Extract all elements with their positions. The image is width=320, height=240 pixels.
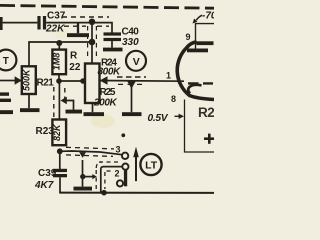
capacitor at left edge (cut) plate 1 [0, 92, 9, 95]
svg-text:1: 1 [166, 71, 171, 81]
pin 9 wire [196, 24, 215, 49]
shield dashes right of vertical wire [95, 26, 97, 59]
capacitor C40 [104, 32, 122, 41]
shield dashes right of R22-R23 wire [64, 88, 66, 102]
shielded wire to terminal 3 [60, 151, 122, 155]
switch blade bar [124, 169, 127, 186]
R25 bottom stem [92, 103, 94, 112]
R22 stem [58, 43, 60, 50]
node junction dot B [89, 39, 96, 46]
svg-text:9: 9 [186, 32, 191, 42]
wire to divider mid [59, 80, 83, 82]
resistor R22 body [52, 50, 66, 75]
wire y42 to R21 [29, 42, 92, 66]
test point T circle [0, 50, 16, 71]
grid dashes [188, 82, 213, 84]
svg-text:3: 3 [116, 145, 121, 155]
shield node ground stem [82, 177, 84, 187]
ground for wiper [66, 110, 83, 114]
ground bar [67, 33, 89, 37]
cable shield inner dashes horizontal [107, 170, 113, 172]
shield dashes left of vertical wire [87, 26, 89, 59]
wiper arrow to ground on R22-R23 [61, 97, 67, 104]
wire C37 to node [46, 22, 92, 24]
svg-text:V: V [133, 56, 140, 68]
down tap arrow on terminal3 wire [79, 152, 86, 158]
screening border (top dashed line) [0, 5, 214, 8]
svg-text:LT: LT [145, 159, 158, 171]
paper stain [91, 114, 115, 128]
shield dashes below top wire right part [97, 25, 109, 27]
cable shield outer dashes horizontal [99, 161, 119, 163]
ground (shield) stem [77, 23, 79, 34]
svg-text:C39: C39 [38, 168, 57, 179]
svg-text:1M8: 1M8 [52, 53, 62, 71]
divider wiper arrowhead [100, 76, 108, 84]
wiper arrowhead R21 [15, 76, 22, 84]
wiper ground wire [67, 101, 74, 110]
resistor R23 body [52, 120, 66, 146]
grid wire to tube [100, 80, 184, 83]
ground below C40 [103, 48, 123, 52]
bottom ground bus wire [59, 192, 214, 194]
switch contact circle top [122, 164, 128, 170]
terminal 2 cable L wire [101, 167, 123, 193]
shield dashes above top wire [62, 16, 109, 18]
ground below tap [122, 112, 142, 116]
shield dashes above grid wire [117, 76, 146, 78]
svg-text:22: 22 [69, 62, 81, 73]
potentiometer R21 body [22, 66, 36, 94]
paper background [0, 0, 214, 220]
R21 bottom stem [28, 94, 30, 108]
R23 stem top [58, 81, 60, 120]
shield dashes below grid wire [118, 83, 144, 85]
C39 bottom stem [59, 177, 61, 192]
svg-text:R21: R21 [37, 77, 55, 88]
svg-text:8: 8 [171, 94, 176, 104]
wiper wire from left [0, 80, 16, 82]
wire shield node to cable shield [83, 176, 93, 178]
0,5V arrow [175, 115, 181, 117]
node dot R23 bottom [57, 148, 63, 154]
node dot divider mid [80, 78, 86, 84]
stray junction dot [121, 133, 125, 137]
anode bar [187, 49, 208, 53]
svg-text:R: R [70, 51, 78, 62]
plus sign [204, 134, 214, 144]
wire to C37 [3, 22, 38, 24]
-70 arrow [196, 15, 202, 20]
switch contact circle bottom [117, 180, 123, 186]
signal direction arrow [135, 157, 137, 181]
shield dashes left of R22-R23 wire [53, 87, 55, 118]
shield dashes above terminal3 wire [66, 147, 114, 149]
svg-text:0.5V: 0.5V [148, 113, 169, 124]
C40 stem to ground [111, 41, 113, 48]
R22 bottom stem [58, 75, 60, 81]
C39 stem from node [59, 151, 61, 169]
ground at left edge [0, 110, 13, 114]
svg-text:R26: R26 [198, 105, 214, 120]
svg-text:2: 2 [115, 169, 120, 179]
vertical wire node to R24 [91, 22, 93, 64]
capacitor C37 [37, 16, 46, 30]
wire node to C40 corner [92, 23, 112, 33]
shield dashes below top wire [64, 25, 86, 27]
tube envelope arc [177, 42, 214, 100]
svg-text:T: T [3, 56, 9, 67]
svg-text:800K: 800K [98, 67, 121, 78]
tap stem down [82, 160, 84, 177]
svg-text:4K7: 4K7 [34, 180, 54, 191]
divider R24/R25 body [85, 64, 100, 104]
LT circle [140, 154, 161, 175]
capacitor at left edge plate 2 [0, 99, 11, 102]
svg-text:R25: R25 [100, 87, 116, 98]
ground bar shield node [74, 187, 93, 191]
node dot R22 bottom [56, 78, 62, 84]
svg-text:22K: 22K [45, 24, 65, 35]
capacitor (cut at left edge) plate [0, 17, 3, 30]
node dot R22 top [56, 40, 62, 46]
node junction dot [89, 19, 96, 26]
shield dashes below terminal3 wire [66, 155, 113, 157]
svg-text:82K: 82K [52, 123, 62, 141]
svg-text:C37: C37 [47, 11, 66, 22]
junction dot shield node [80, 174, 85, 179]
cable shield inner dashes vertical [104, 172, 106, 189]
svg-text:500K: 500K [21, 68, 31, 91]
cathode hook [188, 85, 201, 94]
junction dot bottom bus [101, 190, 107, 196]
voltmeter V circle [126, 51, 146, 71]
tap arrow on grid wire [127, 81, 136, 89]
cable shield outer dashes vertical [95, 170, 97, 190]
tap stem [131, 87, 133, 112]
svg-text:200K: 200K [93, 98, 117, 109]
ground below R25 [84, 112, 105, 116]
terminal 3 circle [122, 153, 128, 159]
capacitor C39 [53, 169, 67, 178]
ground below R21 [20, 108, 40, 112]
target electrode bar [197, 41, 214, 45]
paper stain 2 [55, 29, 69, 39]
svg-text:330: 330 [122, 37, 139, 48]
svg-text:-70: -70 [202, 11, 214, 22]
cathode lead wire [185, 100, 215, 153]
